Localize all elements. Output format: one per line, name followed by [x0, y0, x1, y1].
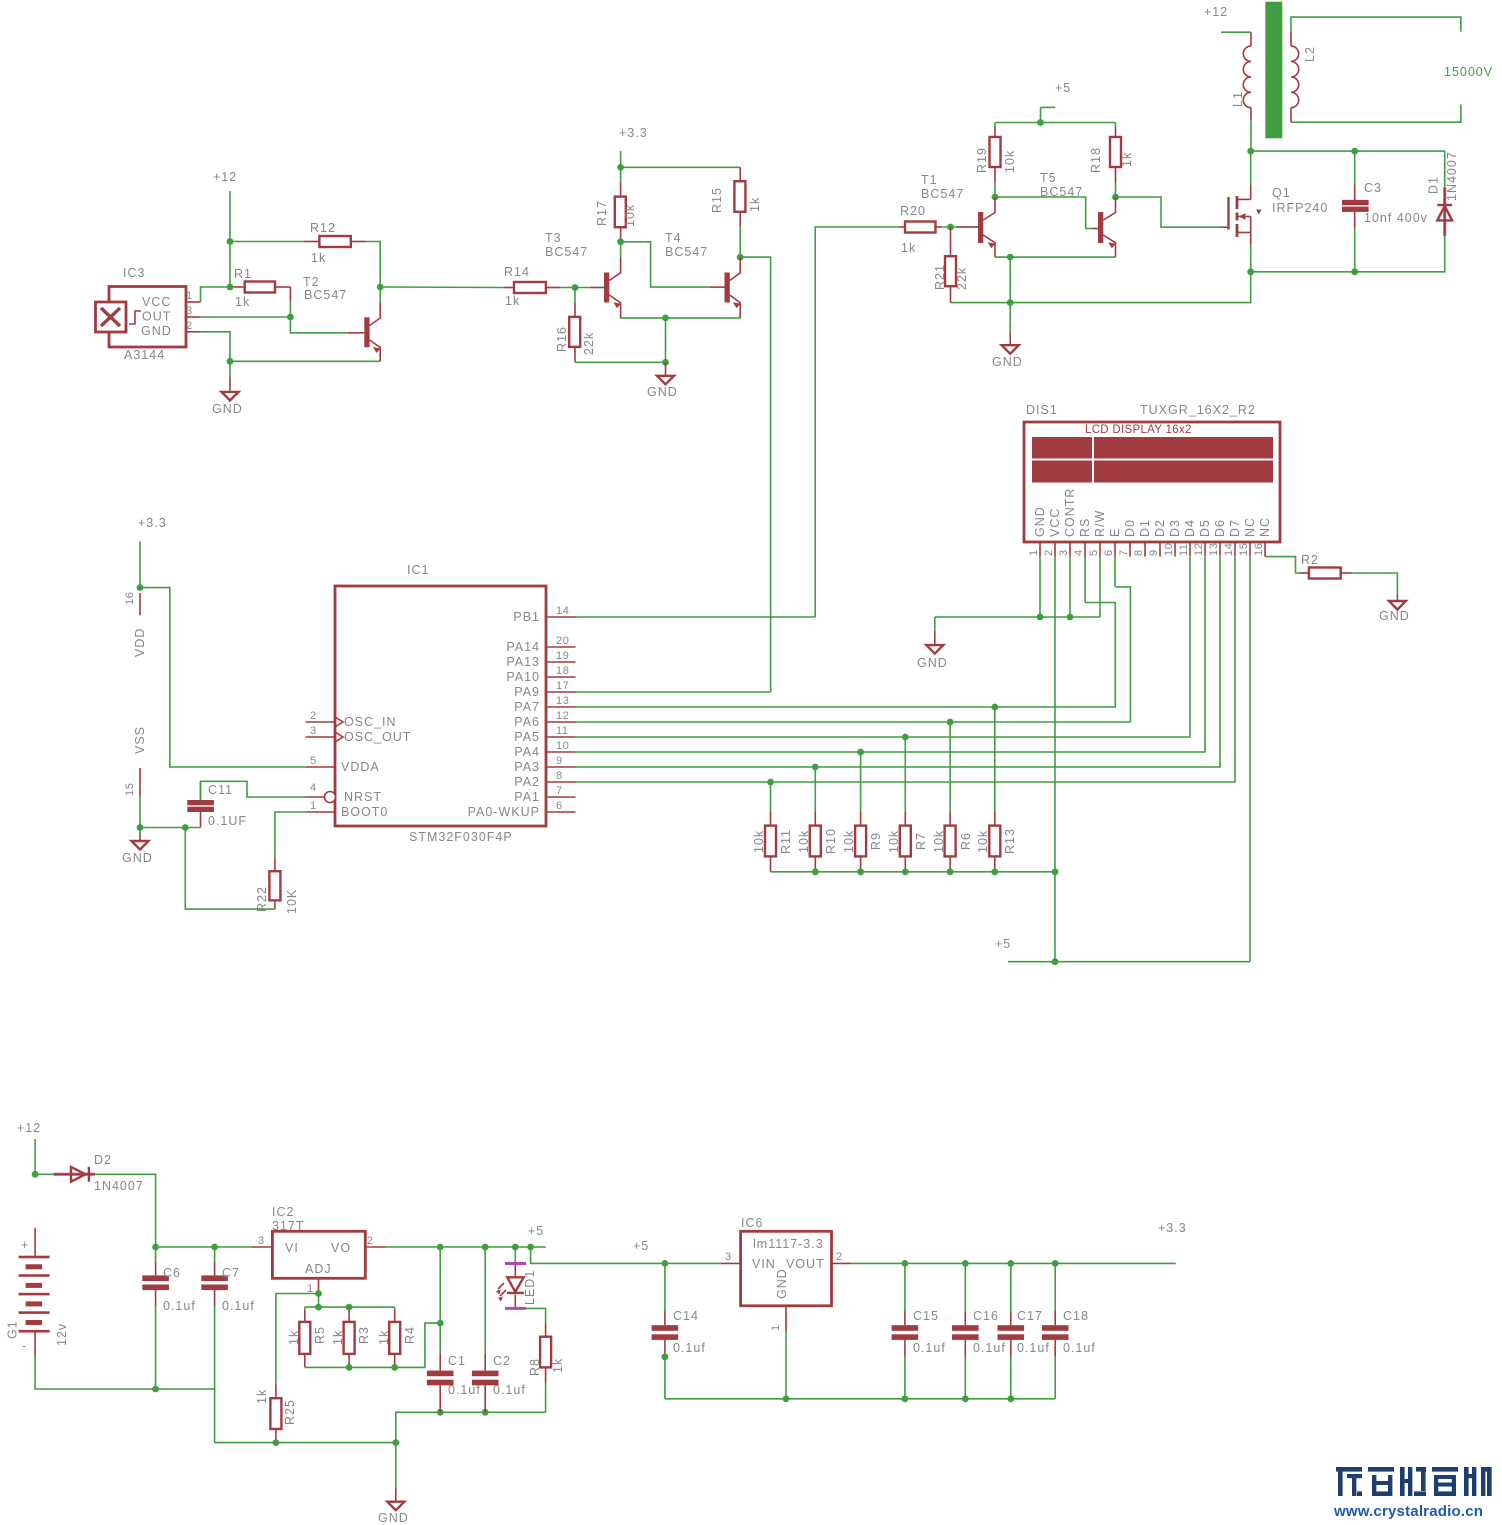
pin 2 VO stub [365, 1235, 386, 1247]
svg-text:R10: R10 [824, 828, 838, 854]
pin 1 GND stub [770, 1306, 786, 1332]
svg-text:0.1uf: 0.1uf [673, 1341, 706, 1355]
node junction PA4/R9 [857, 749, 864, 756]
svg-text:4: 4 [310, 782, 317, 794]
svg-text:PA10: PA10 [506, 670, 540, 684]
svg-text:2: 2 [1043, 549, 1055, 556]
svg-text:IC2: IC2 [272, 1205, 294, 1219]
ground GND (IC1) [122, 828, 153, 866]
svg-text:R14: R14 [504, 265, 530, 279]
node junction bottom rail R4 [391, 1364, 398, 1371]
lcd pin 15 NC [1238, 517, 1257, 557]
pin 6 PA0-WKUP stub [546, 800, 576, 812]
wire T2 collector to R14 [380, 286, 504, 289]
wire +5 output row [386, 1246, 546, 1248]
svg-text:+12: +12 [17, 1121, 41, 1135]
svg-text:+3.3: +3.3 [619, 126, 648, 140]
wire divider bottom rail to output node [305, 1323, 440, 1367]
svg-text:GND: GND [1033, 506, 1047, 537]
capacitor C6 [142, 1247, 196, 1389]
wire top node row [1251, 151, 1445, 188]
node junction C7 top [211, 1244, 218, 1251]
node junction bottom rail R3 [346, 1364, 353, 1371]
resistor R3 [331, 1307, 371, 1367]
node junction GND row [1007, 299, 1014, 306]
svg-text:R21: R21 [933, 264, 947, 290]
capacitor C15 [892, 1263, 946, 1398]
svg-text:1k: 1k [331, 1330, 345, 1345]
svg-text:R18: R18 [1089, 147, 1103, 173]
resistor R14 [504, 265, 560, 308]
svg-text:PA7: PA7 [514, 700, 540, 714]
node junction C15 bottom [902, 1395, 909, 1402]
svg-text:VCC: VCC [1048, 508, 1062, 537]
wire lcd pin1 to GND row [1039, 557, 1041, 617]
svg-text:12: 12 [556, 710, 569, 722]
svg-text:1k: 1k [505, 294, 520, 308]
supply +5 (IC6 rail) [633, 1239, 649, 1253]
svg-text:1: 1 [770, 1324, 782, 1331]
node junction bus R13 [991, 868, 998, 875]
pin 17 PA9 stub [546, 680, 576, 692]
resistor R4 [377, 1307, 417, 1367]
supply +3.3 (IC6 output) [1158, 1221, 1187, 1235]
svg-text:VI: VI [285, 1241, 299, 1255]
svg-text:GND: GND [647, 385, 678, 399]
wire GND pin down [201, 332, 231, 362]
pin 1 VCC stub [186, 290, 201, 302]
svg-text:22k: 22k [582, 332, 596, 355]
wire Q1 source to bottom node [1250, 244, 1252, 271]
wire PA4 row [576, 557, 1206, 752]
pin 1 ADJ stub [307, 1278, 319, 1295]
wire Q1 drain to top node [1250, 151, 1252, 184]
node junction bus R10 [812, 868, 819, 875]
lcd pin 10 D3 [1163, 519, 1182, 557]
node junction C16 top [962, 1260, 969, 1267]
svg-text:IC6: IC6 [741, 1216, 763, 1230]
svg-text:R25: R25 [283, 1399, 297, 1425]
wire D2 row [35, 1174, 156, 1247]
node junction C2 top [482, 1244, 489, 1251]
svg-text:BC547: BC547 [921, 187, 964, 201]
wire GND row to Q1 source [951, 272, 1251, 303]
ground GND (R2) [1379, 594, 1410, 623]
wire +3.3 row [851, 1262, 1176, 1264]
svg-text:5: 5 [1088, 549, 1100, 556]
pin 11 PA5 stub [546, 725, 576, 737]
wire cross-couple to T5 base [995, 197, 1092, 229]
svg-text:R9: R9 [869, 832, 883, 850]
svg-text:VIN: VIN [752, 1257, 776, 1271]
svg-text:2: 2 [836, 1251, 843, 1263]
svg-text:-: - [22, 1339, 27, 1353]
svg-text:PA4: PA4 [514, 745, 540, 759]
inductor L1 [1231, 32, 1251, 120]
wire R14 to T3 base [560, 287, 590, 289]
svg-text:VSS: VSS [133, 726, 147, 754]
svg-text:PA0-WKUP: PA0-WKUP [468, 805, 540, 819]
node junction GND row [227, 358, 234, 365]
svg-text:1k: 1k [901, 241, 916, 255]
pin 14 PB1 stub [546, 605, 576, 617]
svg-text:L1: L1 [1231, 91, 1245, 107]
wire VCC pin to R1 node [201, 287, 231, 302]
wire ADJ to divider top rail [318, 1294, 320, 1308]
svg-text:www.crystalradio.cn: www.crystalradio.cn [1333, 1503, 1483, 1520]
lcd pin 7 D0 [1118, 519, 1137, 557]
svg-text:C16: C16 [973, 1309, 999, 1323]
wire PB1 row [576, 616, 816, 618]
wire R1 row [230, 242, 234, 288]
svg-text:R16: R16 [555, 326, 569, 352]
wire VSS down [139, 797, 141, 828]
pin names IC1 right [468, 610, 540, 819]
resistor R13 [976, 707, 1017, 872]
svg-text:R19: R19 [975, 147, 989, 173]
node junction C6 top [152, 1244, 159, 1251]
wire +5 feed to IC6 [531, 1247, 721, 1263]
lcd pin 6 E [1103, 528, 1122, 557]
capacitor C14 [652, 1263, 706, 1398]
svg-text:2: 2 [186, 320, 193, 332]
pin 16 VDD stub [124, 592, 147, 657]
capacitor C2 [472, 1247, 526, 1412]
ground GND (astable) [992, 303, 1023, 369]
svg-text:D2: D2 [1153, 519, 1167, 537]
svg-text:11: 11 [1178, 543, 1190, 556]
svg-text:PA1: PA1 [514, 790, 540, 804]
node junction emitter bus (astable) [1007, 254, 1014, 261]
svg-text:1k: 1k [748, 197, 762, 212]
resistor R21 [933, 227, 969, 303]
pin 18 PA10 stub [546, 665, 576, 677]
pin 4 NRST stub [306, 782, 325, 797]
resistor R9 [842, 752, 883, 872]
battery G1 12v [6, 1228, 70, 1356]
svg-text:R11: R11 [779, 829, 793, 854]
svg-text:A3144: A3144 [124, 348, 165, 362]
node junction C16 bottom [962, 1395, 969, 1402]
node junction bus R9 [857, 868, 864, 875]
resistor R6 [932, 722, 973, 872]
svg-text:0.1uf: 0.1uf [493, 1383, 526, 1397]
svg-text:10k: 10k [932, 830, 946, 853]
node junction IC6 gnd [783, 1395, 790, 1402]
svg-text:16: 16 [124, 592, 136, 605]
node junction T5 collector [1112, 194, 1119, 201]
svg-text:VDD: VDD [133, 628, 147, 657]
pin 3 OUT stub [186, 305, 201, 317]
svg-text:+: + [21, 1238, 29, 1252]
svg-text:GND: GND [775, 1268, 789, 1299]
svg-text:T5: T5 [1040, 171, 1057, 185]
svg-text:R17: R17 [595, 200, 609, 226]
resistor R25 [255, 1383, 297, 1442]
svg-text:22k: 22k [955, 267, 969, 290]
pin 3 VIN stub [720, 1251, 740, 1263]
node junction +5 rail [1037, 119, 1044, 126]
svg-text:NC: NC [1243, 517, 1257, 537]
node junction VDD [137, 584, 144, 591]
node junction C2 bottom [482, 1409, 489, 1416]
node junction C3 bottom [1351, 268, 1358, 275]
node junction C1 top [437, 1244, 444, 1251]
wire +3.3 down [620, 151, 622, 167]
svg-text:D4: D4 [1183, 519, 1197, 537]
wire L1 bottom to drain node [1250, 120, 1252, 151]
svg-text:GND: GND [1379, 609, 1410, 623]
svg-text:PA9: PA9 [514, 685, 540, 699]
svg-text:0.1uf: 0.1uf [222, 1299, 255, 1313]
lcd pin 5 R/W [1088, 510, 1107, 557]
capacitor C3 [1342, 151, 1428, 272]
svg-text:PA13: PA13 [506, 655, 540, 669]
svg-text:1k: 1k [377, 1330, 391, 1345]
svg-text:15: 15 [124, 783, 136, 796]
svg-text:C14: C14 [673, 1309, 699, 1323]
svg-text:TUXGR_16X2_R2: TUXGR_16X2_R2 [1140, 403, 1256, 417]
wire lcd pin6 E to PA6 [1114, 557, 1116, 587]
svg-text:C17: C17 [1017, 1309, 1043, 1323]
svg-text:+5: +5 [995, 937, 1011, 951]
svg-text:T1: T1 [921, 173, 938, 187]
wire lcd pin16 to R2 [1265, 557, 1300, 573]
svg-text:18: 18 [556, 665, 569, 677]
node junction C3 top [1351, 148, 1358, 155]
svg-text:D6: D6 [1213, 519, 1227, 537]
node junction C1 bottom [437, 1409, 444, 1416]
svg-text:PB1: PB1 [513, 610, 540, 624]
regulator IC2 317T [272, 1205, 365, 1278]
transformer core [1265, 2, 1282, 139]
svg-text:L2: L2 [1303, 46, 1317, 62]
svg-text:lm1117-3.3: lm1117-3.3 [753, 1237, 824, 1251]
svg-text:CONTR: CONTR [1063, 488, 1077, 537]
node junction C17 bottom [1007, 1395, 1014, 1402]
pin 9 PA3 stub [546, 755, 576, 767]
wire PA3 row [576, 557, 1221, 767]
svg-text:1k: 1k [311, 251, 326, 265]
wire +5 row [1008, 961, 1250, 963]
svg-text:20: 20 [556, 635, 569, 647]
wire C11 top to NRST [201, 781, 306, 800]
svg-text:D2: D2 [94, 1153, 112, 1167]
wire +12 down to R12 row [229, 191, 231, 242]
svg-text:0.1uf: 0.1uf [1017, 1341, 1050, 1355]
svg-text:R13: R13 [1003, 828, 1017, 854]
capacitor C16 [952, 1263, 1006, 1398]
node junction C17 top [1007, 1260, 1014, 1267]
watermark url www.crystalradio.cn [1333, 1503, 1483, 1520]
svg-text:DIS1: DIS1 [1026, 403, 1058, 417]
transistor T2 BC547 [303, 275, 381, 361]
net label 15000V [1444, 65, 1493, 79]
pin 3 VI stub [252, 1235, 273, 1247]
wire lcd GND row [935, 616, 1100, 618]
svg-text:C11: C11 [208, 783, 233, 797]
node junction R22 return [182, 824, 189, 831]
svg-text:11: 11 [556, 725, 569, 737]
svg-text:D3: D3 [1168, 519, 1182, 537]
resistor R2 [1300, 553, 1352, 579]
wire ADJ to R25 [276, 1294, 319, 1384]
svg-text:6: 6 [556, 800, 563, 812]
supply +12 (psu) [17, 1121, 41, 1135]
supply +5 (lcd) [995, 937, 1011, 951]
svg-text:0.1uf: 0.1uf [913, 1341, 946, 1355]
svg-text:R7: R7 [914, 832, 928, 850]
lcd pin 4 RS [1073, 518, 1092, 557]
svg-text:GND: GND [122, 851, 153, 865]
svg-text:C2: C2 [493, 1354, 511, 1368]
svg-text:0.1uf: 0.1uf [973, 1341, 1006, 1355]
node junction PA2/R11 [767, 779, 774, 786]
svg-text:3: 3 [310, 725, 317, 737]
wire +12 rail to VI [156, 1246, 252, 1248]
lcd pin 12 D5 [1193, 519, 1212, 557]
node junction PA6/R6 [947, 719, 954, 726]
wire VDD node to VDDA [140, 588, 306, 767]
svg-text:R2: R2 [1301, 553, 1319, 567]
wire PA9 row [576, 691, 771, 693]
svg-text:GND: GND [992, 355, 1023, 369]
node junction emitter bus [662, 315, 669, 322]
wire IC6 gnd rail [665, 1398, 1055, 1400]
svg-text:10k: 10k [887, 830, 901, 853]
svg-text:R6: R6 [959, 832, 973, 850]
wire T3/T4 emitter bus [621, 317, 741, 319]
resistor R17 [595, 167, 637, 242]
transistor T4 BC547 [665, 231, 741, 318]
pin 1 BOOT0 stub [306, 800, 336, 812]
svg-text:3: 3 [258, 1235, 265, 1247]
wire divider top rail [305, 1306, 395, 1308]
resistor R12 [304, 221, 366, 265]
svg-text:PA3: PA3 [514, 760, 540, 774]
diode D2 1N4007 [54, 1153, 144, 1193]
svg-text:LED1: LED1 [523, 1270, 537, 1305]
svg-text:R5: R5 [313, 1326, 327, 1344]
resistor R19 [975, 123, 1017, 198]
svg-text:10k: 10k [842, 830, 856, 853]
svg-text:D1: D1 [1427, 176, 1441, 194]
transistor T5 BC547 [1040, 171, 1116, 257]
svg-text:BOOT0: BOOT0 [341, 805, 388, 819]
pin 12 PA6 stub [546, 710, 576, 722]
pin 3 OSC_OUT stub [306, 725, 336, 737]
svg-text:VCC: VCC [142, 295, 171, 309]
svg-text:Q1: Q1 [1272, 186, 1291, 200]
svg-text:R3: R3 [357, 1326, 371, 1344]
resistor R15 [710, 167, 762, 257]
svg-text:5: 5 [310, 755, 317, 767]
pin 20 PA14 stub [546, 635, 576, 647]
svg-text:14: 14 [556, 605, 569, 617]
resistor R18 [1089, 123, 1134, 198]
svg-text:0.1uf: 0.1uf [163, 1299, 196, 1313]
resistor R8 [528, 1323, 565, 1412]
capacitor C17 [998, 1263, 1050, 1398]
wire PA5 row [576, 557, 1191, 737]
svg-text:PA6: PA6 [514, 715, 540, 729]
node junction lcd gnd pin1 [1037, 614, 1044, 621]
svg-text:1: 1 [1028, 549, 1040, 556]
svg-text:+3.3: +3.3 [1158, 1221, 1187, 1235]
lcd pin 8 D1 [1133, 519, 1152, 557]
node junction bus R6 [947, 868, 954, 875]
wire emitter bus down [665, 318, 667, 362]
wire PA2 row [576, 557, 1236, 782]
wire lcd pin5 to GND row [1099, 557, 1101, 617]
svg-text:8: 8 [556, 770, 563, 782]
wire +12 down [34, 1139, 36, 1174]
wire +3.3 down to VDD [139, 542, 141, 588]
svg-text:17: 17 [556, 680, 569, 692]
node junction OUT [287, 314, 294, 321]
wire OUT pin to node [201, 316, 291, 318]
node junction C14 top [662, 1260, 669, 1267]
pin 15 VSS stub [124, 726, 147, 797]
svg-text:STM32F030F4P: STM32F030F4P [409, 830, 513, 844]
regulator IC6 lm1117-3.3 [741, 1216, 832, 1306]
resistor R7 [887, 737, 928, 872]
node junction top rail ADJ [315, 1304, 322, 1311]
svg-text:T3: T3 [545, 231, 562, 245]
svg-text:BC547: BC547 [665, 245, 708, 259]
lcd pin 2 VCC [1043, 508, 1062, 557]
wire R20 to T1 base [941, 226, 978, 228]
node junction top rail R3 [346, 1304, 353, 1311]
wire lcd pin2 VCC down to +5 [1054, 557, 1056, 962]
wire emitter bus down to GND row [1009, 257, 1011, 303]
resistor R5 [287, 1307, 327, 1367]
ground GND (psu) [378, 1443, 409, 1525]
node junction +5 branch [527, 1244, 534, 1251]
svg-text:1: 1 [186, 290, 193, 302]
svg-text:PA14: PA14 [506, 640, 540, 654]
svg-text:D0: D0 [1123, 519, 1137, 537]
node junction C6 bottom [152, 1386, 159, 1393]
svg-text:VO: VO [331, 1241, 351, 1255]
svg-text:IC3: IC3 [123, 266, 145, 280]
pin 2 VOUT stub [832, 1251, 852, 1263]
svg-text:10: 10 [1163, 543, 1175, 556]
node junction battery top [32, 1171, 39, 1178]
wire T5 collector to Q1 gate [1116, 197, 1222, 227]
svg-text:C7: C7 [222, 1266, 240, 1280]
node junction T4 collector [737, 254, 744, 261]
svg-text:9: 9 [556, 755, 563, 767]
svg-text:2: 2 [310, 710, 317, 722]
svg-text:1N4007: 1N4007 [1445, 151, 1459, 201]
wire R1 right down to OUT node [290, 287, 348, 333]
svg-text:D5: D5 [1198, 519, 1212, 537]
resistor R20 [899, 204, 941, 255]
wire LED to R8 [526, 1308, 546, 1323]
svg-text:10k: 10k [797, 830, 811, 853]
supply +3.3 (multivibrator) [619, 126, 648, 140]
svg-text:VOUT: VOUT [786, 1257, 825, 1271]
svg-text:+5: +5 [633, 1239, 649, 1253]
svg-text:GND: GND [917, 656, 948, 670]
svg-text:10nf 400v: 10nf 400v [1364, 211, 1428, 225]
svg-text:R12: R12 [310, 221, 336, 235]
svg-text:3: 3 [186, 305, 193, 317]
ground GND (multivibrator) [647, 362, 678, 399]
svg-text:GND: GND [212, 402, 243, 416]
wire secondary bottom [1291, 104, 1461, 122]
